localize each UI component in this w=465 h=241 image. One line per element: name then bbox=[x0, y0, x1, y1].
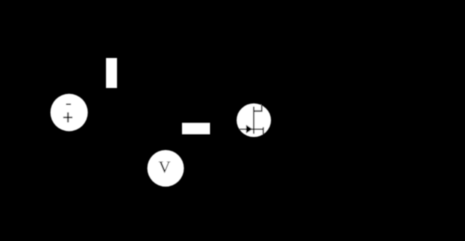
minus polarity mark bbox=[66, 103, 71, 105]
Q1 drain lead bbox=[254, 104, 262, 112]
svg-text:V: V bbox=[158, 158, 171, 177]
plus polarity mark bbox=[63, 112, 72, 122]
resistor R2 (horizontal body) bbox=[182, 123, 210, 135]
transistor Q1 (n-channel JFET) bbox=[237, 103, 271, 137]
resistor R1 (vertical body) bbox=[106, 58, 117, 88]
Q1 gate lead bbox=[240, 128, 264, 130]
voltmeter V bbox=[147, 150, 184, 187]
Q1 source lead bbox=[262, 127, 264, 135]
Q1 channel bar bbox=[253, 107, 255, 134]
Q1 gate arrow bbox=[246, 125, 252, 133]
voltage source V1 bbox=[50, 94, 87, 131]
